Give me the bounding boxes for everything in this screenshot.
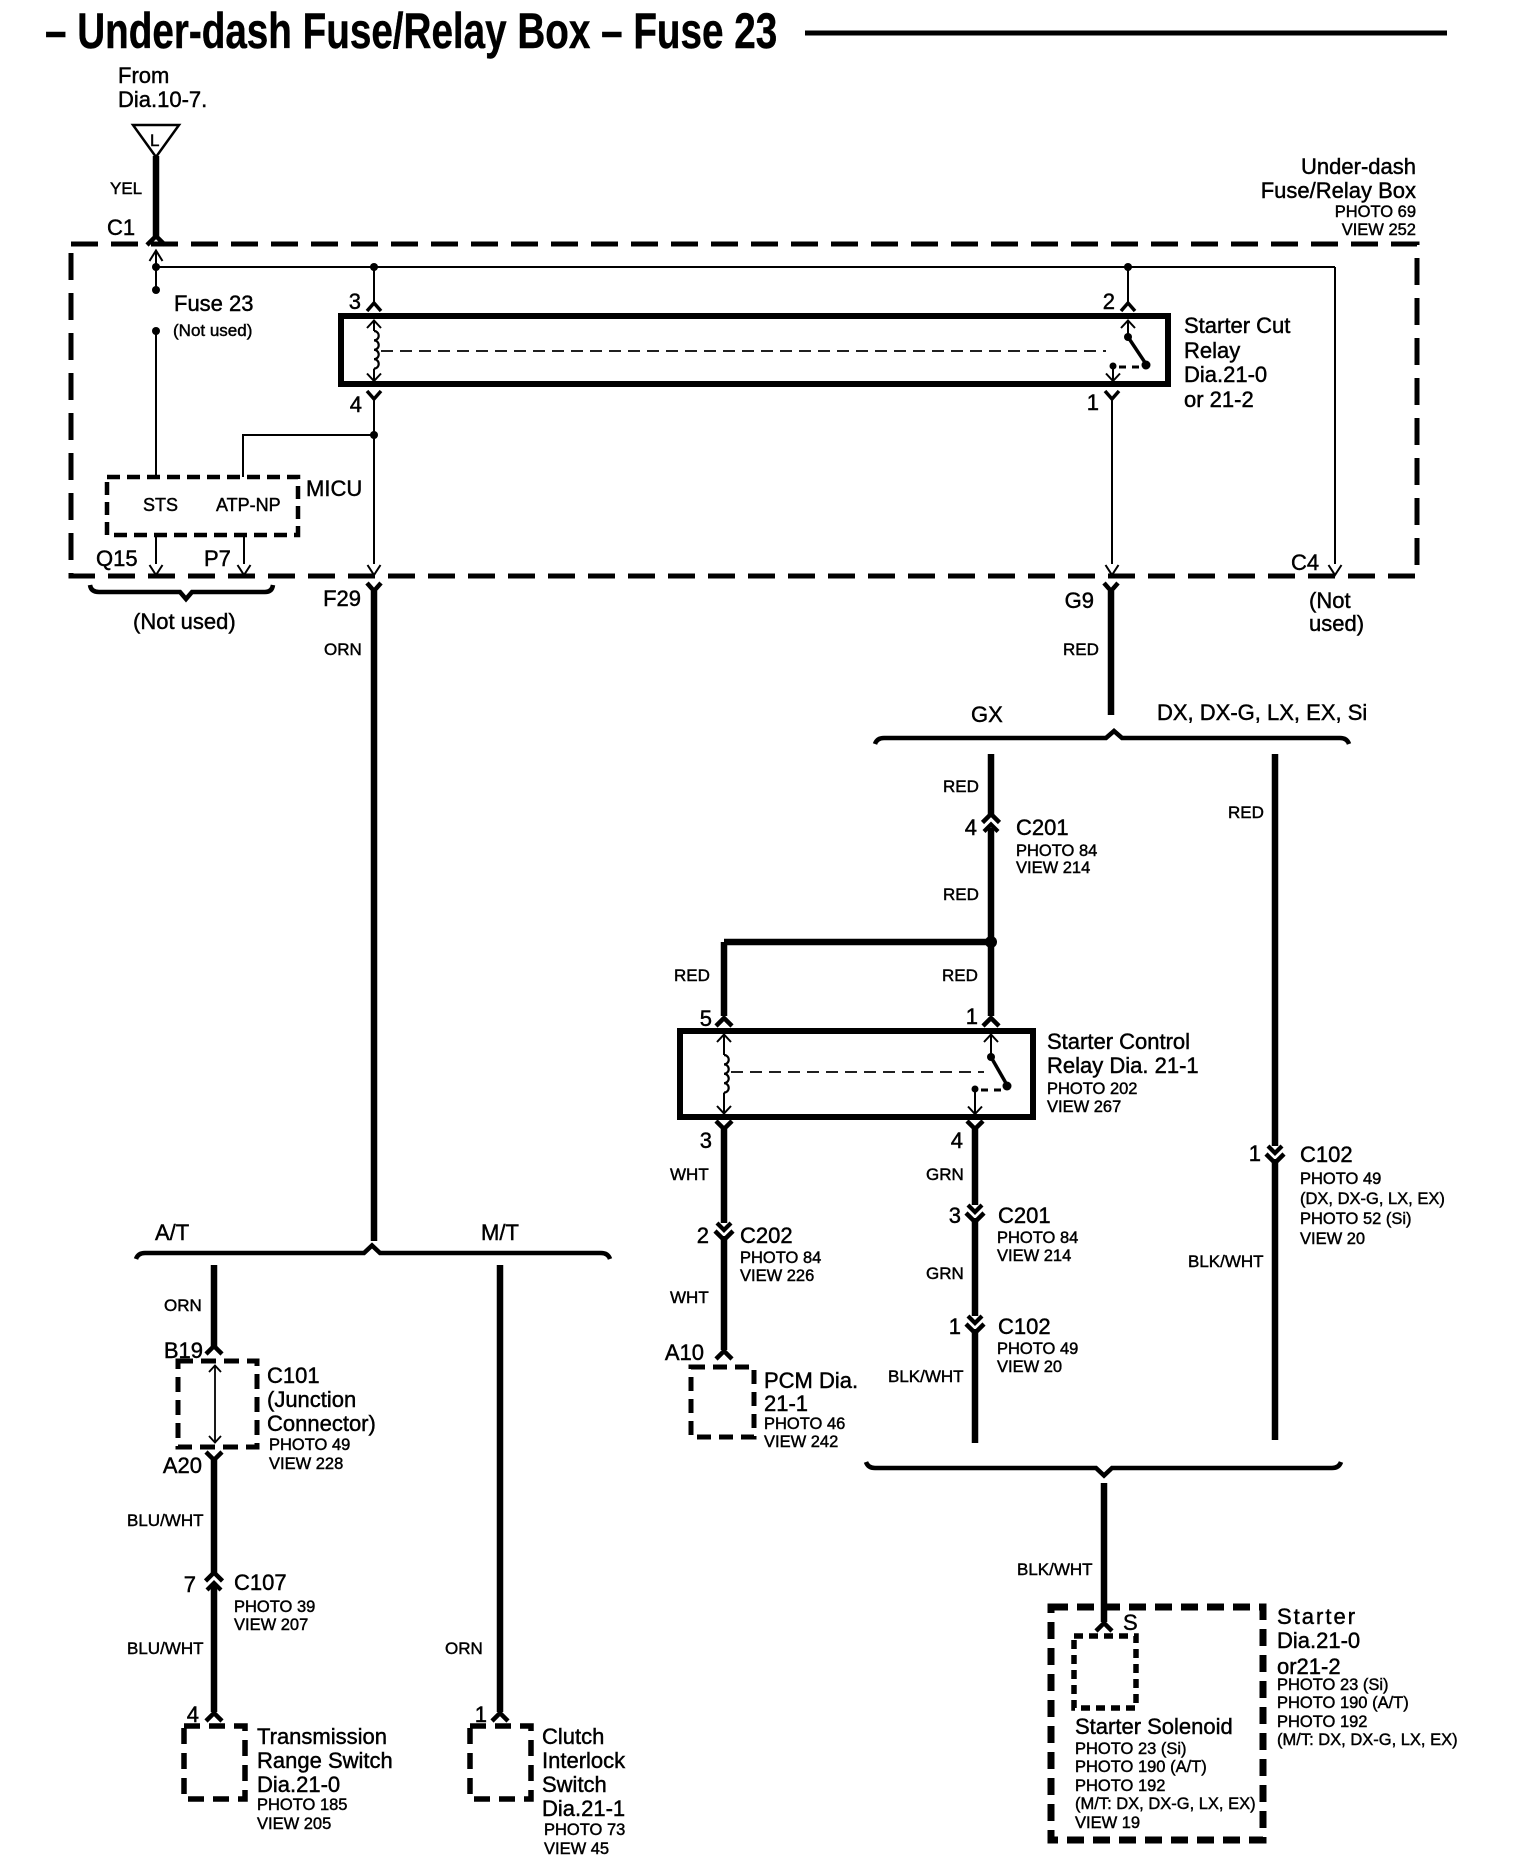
svg-text:RED: RED — [1063, 640, 1099, 659]
svg-text:PHOTO 69: PHOTO 69 — [1335, 203, 1416, 221]
connector pin 5 female flare — [716, 1018, 732, 1026]
svg-text:VIEW 20: VIEW 20 — [1300, 1230, 1365, 1248]
svg-text:VIEW 19: VIEW 19 — [1075, 1814, 1140, 1832]
svg-text:Dia.21-0: Dia.21-0 — [1277, 1628, 1360, 1653]
relay K1 Starter Cut Relay box — [341, 316, 1168, 384]
svg-text:Transmission: Transmission — [257, 1724, 387, 1749]
svg-text:PHOTO 23 (Si): PHOTO 23 (Si) — [1277, 1676, 1389, 1694]
label C201 PHOTO 84 VIEW 214 — [1016, 815, 1097, 877]
svg-text:VIEW 228: VIEW 228 — [269, 1455, 343, 1473]
svg-text:Relay: Relay — [1184, 338, 1240, 363]
svg-text:4: 4 — [350, 392, 362, 417]
svg-text:2: 2 — [1103, 289, 1115, 314]
wire RED to coil (horizontal) — [724, 939, 991, 946]
svg-text:VIEW 267: VIEW 267 — [1047, 1098, 1121, 1116]
relay K2 internal dashed link — [731, 1071, 984, 1073]
wire YEL (C1 feed) — [153, 156, 160, 236]
connector C107 pin 7 (up) — [206, 1573, 223, 1591]
svg-text:VIEW 214: VIEW 214 — [1016, 859, 1090, 877]
label C102 PHOTO 49 (DX, DX-G, LX, EX) PHOTO 52 (Si) VIEW 20 — [1300, 1142, 1445, 1248]
wire Q15 — [155, 535, 157, 564]
fuse 23 top lead — [155, 267, 157, 290]
svg-text:L: L — [150, 131, 159, 150]
wire BLK/WHT to starter — [1101, 1483, 1108, 1622]
svg-text:GRN: GRN — [926, 1264, 964, 1283]
label Starter Dia.21-0 or21-2 block — [1277, 1604, 1458, 1749]
wire ORN M/T branch — [497, 1265, 504, 1712]
connector B19 female flare — [206, 1346, 222, 1354]
clutch interlock switch box (dashed) — [470, 1726, 531, 1799]
svg-text:C201: C201 — [1016, 815, 1069, 840]
wire C1 entry arrow — [150, 251, 163, 268]
svg-text:PHOTO 185: PHOTO 185 — [257, 1796, 347, 1814]
node junction pin4/MICU branch — [370, 431, 378, 439]
svg-text:C202: C202 — [740, 1223, 793, 1248]
connector TRS pin 4 female flare — [206, 1713, 222, 1721]
brace merge to starter — [866, 1462, 1341, 1476]
svg-text:A20: A20 — [163, 1453, 202, 1478]
svg-text:used): used) — [1309, 611, 1364, 636]
svg-text:– Under-dash Fuse/Relay Box –: – Under-dash Fuse/Relay Box – Fuse 23 — [45, 4, 777, 59]
svg-text:VIEW 207: VIEW 207 — [234, 1616, 308, 1634]
connector pin 4 female flare — [967, 1121, 983, 1129]
svg-text:Relay Dia. 21-1: Relay Dia. 21-1 — [1047, 1053, 1199, 1078]
svg-text:ATP-NP: ATP-NP — [216, 495, 281, 515]
connector S female flare — [1096, 1623, 1112, 1631]
svg-text:PHOTO 46: PHOTO 46 — [764, 1415, 845, 1433]
relay K1 internal dashed link — [381, 350, 1106, 352]
wire RED GX branch upper — [988, 754, 995, 817]
svg-text:ORN: ORN — [164, 1296, 202, 1315]
wire C4 lead — [1334, 267, 1336, 564]
svg-text:P7: P7 — [204, 546, 231, 571]
svg-text:2: 2 — [697, 1223, 709, 1248]
label C202 PHOTO 84 VIEW 226 — [740, 1223, 821, 1285]
svg-text:G9: G9 — [1065, 588, 1094, 613]
svg-text:(Not used): (Not used) — [173, 321, 252, 340]
svg-text:ORN: ORN — [445, 1639, 483, 1658]
wire pin 4 to F29 — [373, 399, 375, 564]
svg-text:C102: C102 — [998, 1314, 1051, 1339]
wire RED coil drop — [721, 942, 728, 1016]
svg-text:STS: STS — [143, 495, 178, 515]
label Starter Cut Relay Dia.21-0 or 21-2 — [1184, 313, 1290, 412]
svg-text:PHOTO 202: PHOTO 202 — [1047, 1080, 1137, 1098]
svg-text:BLK/WHT: BLK/WHT — [1188, 1252, 1264, 1271]
wire RED GX branch lower — [988, 828, 995, 1016]
wire WHT to A10 — [721, 1236, 728, 1350]
relay K2 Starter Control Relay box — [680, 1031, 1033, 1117]
svg-text:RED: RED — [942, 966, 978, 985]
svg-text:MICU: MICU — [306, 476, 362, 501]
svg-text:ORN: ORN — [324, 640, 362, 659]
svg-text:Q15: Q15 — [96, 546, 138, 571]
arrow at G9 border — [1106, 565, 1119, 575]
svg-text:(Not: (Not — [1309, 588, 1351, 613]
svg-text:3: 3 — [949, 1203, 961, 1228]
pin 1 female flare — [1105, 391, 1119, 399]
label Starter Control Relay Dia. 21-1 — [1047, 1029, 1199, 1116]
brace A/T M/T split — [136, 1246, 610, 1260]
svg-text:F29: F29 — [323, 586, 361, 611]
wire ORN F29 down — [371, 591, 378, 1241]
svg-text:PHOTO 84: PHOTO 84 — [740, 1249, 821, 1267]
svg-text:21-1: 21-1 — [764, 1391, 808, 1416]
wire pin 1 to G9 — [1111, 399, 1113, 564]
svg-text:1: 1 — [1087, 390, 1099, 415]
wire branch to MICU ATP-NP — [243, 435, 374, 477]
connector C102 pin 1 (down) — [966, 1316, 984, 1333]
svg-text:BLU/WHT: BLU/WHT — [127, 1511, 204, 1530]
svg-text:PHOTO 39: PHOTO 39 — [234, 1598, 315, 1616]
node junction at C1/bus — [152, 263, 160, 271]
svg-text:7: 7 — [184, 1572, 196, 1597]
label C201 PHOTO 84 VIEW 214 — [997, 1203, 1078, 1265]
relay K2 coil — [717, 1035, 731, 1114]
connector triangle L (from Dia.10-7) — [133, 125, 179, 157]
connector C201 pin 4 (up) — [983, 814, 1000, 832]
svg-text:VIEW 214: VIEW 214 — [997, 1247, 1071, 1265]
svg-text:Interlock: Interlock — [542, 1748, 626, 1773]
svg-text:1: 1 — [966, 1004, 978, 1029]
pin 4 female flare — [367, 391, 381, 399]
node junction pin3 — [370, 263, 378, 271]
svg-text:RED: RED — [674, 966, 710, 985]
fuse 23 terminal top — [152, 286, 160, 294]
svg-text:WHT: WHT — [670, 1165, 709, 1184]
fuse 23 terminal bottom — [152, 327, 160, 335]
transmission range switch box (dashed) — [184, 1726, 245, 1799]
wire BLU/WHT lower — [211, 1586, 218, 1712]
svg-text:PHOTO 84: PHOTO 84 — [1016, 842, 1097, 860]
wire ORN A/T branch — [211, 1265, 218, 1347]
svg-text:PHOTO 192: PHOTO 192 — [1075, 1777, 1165, 1795]
label C101 (Junction Connector) PHOTO 49 VIEW 228 — [267, 1363, 376, 1473]
wire BLK/WHT right branch — [1272, 1159, 1279, 1440]
PCM box (dashed) — [691, 1367, 754, 1437]
connector clutch pin 1 female flare — [492, 1713, 508, 1721]
label C102 PHOTO 49 VIEW 20 — [997, 1314, 1078, 1376]
svg-text:C201: C201 — [998, 1203, 1051, 1228]
pin 3 female flare — [367, 303, 381, 311]
starter box (dashed) — [1051, 1607, 1263, 1840]
wire RED G9 down — [1108, 591, 1115, 715]
svg-text:Fuse 23: Fuse 23 — [174, 291, 254, 316]
svg-text:C101: C101 — [267, 1363, 320, 1388]
svg-text:(Junction: (Junction — [267, 1387, 356, 1412]
svg-text:VIEW 242: VIEW 242 — [764, 1433, 838, 1451]
svg-text:BLK/WHT: BLK/WHT — [1017, 1560, 1093, 1579]
svg-text:Dia.21-1: Dia.21-1 — [542, 1796, 625, 1821]
label Transmission Range Switch block — [257, 1724, 393, 1833]
svg-text:WHT: WHT — [670, 1288, 709, 1307]
node junction pin2 — [1124, 263, 1132, 271]
svg-text:5: 5 — [700, 1006, 712, 1031]
svg-text:(M/T: DX, DX-G, LX, EX): (M/T: DX, DX-G, LX, EX) — [1277, 1731, 1458, 1749]
svg-text:PHOTO 84: PHOTO 84 — [997, 1229, 1078, 1247]
svg-text:PHOTO 52 (Si): PHOTO 52 (Si) — [1300, 1210, 1412, 1228]
svg-text:VIEW 20: VIEW 20 — [997, 1358, 1062, 1376]
svg-text:C4: C4 — [1291, 550, 1319, 575]
svg-text:Starter Control: Starter Control — [1047, 1029, 1190, 1054]
connector C102 pin 1 right (down) — [1266, 1146, 1284, 1163]
svg-text:PHOTO 190 (A/T): PHOTO 190 (A/T) — [1075, 1758, 1207, 1776]
svg-text:C107: C107 — [234, 1570, 287, 1595]
svg-text:A10: A10 — [665, 1340, 704, 1365]
relay K2 switch — [968, 1035, 1012, 1115]
wire P7 — [243, 535, 245, 564]
wire internal bus (thin horizontal) — [156, 266, 1335, 268]
svg-text:Fuse/Relay Box: Fuse/Relay Box — [1261, 178, 1416, 203]
svg-text:Dia.10-7.: Dia.10-7. — [118, 87, 207, 112]
svg-text:or 21-2: or 21-2 — [1184, 387, 1254, 412]
wire RED right branch — [1272, 754, 1279, 1146]
wire BLU/WHT upper — [211, 1460, 218, 1573]
connector A20 female flare — [206, 1452, 222, 1460]
MICU box (dashed) — [107, 477, 298, 535]
relay K1 switch — [1106, 320, 1151, 381]
connector C202 pin 2 (down) — [715, 1223, 733, 1240]
svg-text:DX, DX-G, LX, EX, Si: DX, DX-G, LX, EX, Si — [1157, 700, 1367, 725]
svg-text:(M/T: DX, DX-G, LX, EX): (M/T: DX, DX-G, LX, EX) — [1075, 1795, 1256, 1813]
C101 internal arrow — [209, 1365, 221, 1443]
svg-text:Starter Cut: Starter Cut — [1184, 313, 1290, 338]
svg-text:S: S — [1123, 1610, 1138, 1635]
svg-text:VIEW 226: VIEW 226 — [740, 1267, 814, 1285]
svg-text:C102: C102 — [1300, 1142, 1353, 1167]
label Starter Solenoid block — [1075, 1714, 1256, 1832]
svg-text:Range Switch: Range Switch — [257, 1748, 393, 1773]
svg-text:PHOTO 49: PHOTO 49 — [997, 1340, 1078, 1358]
under-dash fuse/relay box (dashed) — [71, 244, 1417, 576]
brace not-used pins — [90, 585, 273, 599]
svg-text:Starter Solenoid: Starter Solenoid — [1075, 1714, 1233, 1739]
svg-text:1: 1 — [1249, 1141, 1261, 1166]
svg-text:Under-dash: Under-dash — [1301, 154, 1416, 179]
svg-text:RED: RED — [943, 777, 979, 796]
connector C201 pin 3 (down) — [966, 1205, 984, 1222]
connector G9 female flare — [1104, 583, 1118, 591]
svg-text:BLU/WHT: BLU/WHT — [127, 1639, 204, 1658]
connector F29 female flare — [367, 583, 381, 591]
svg-text:4: 4 — [951, 1128, 963, 1153]
svg-text:4: 4 — [965, 815, 977, 840]
svg-text:A/T: A/T — [155, 1220, 189, 1245]
svg-text:(DX, DX-G, LX, EX): (DX, DX-G, LX, EX) — [1300, 1190, 1445, 1208]
svg-text:Dia.21-0: Dia.21-0 — [257, 1772, 340, 1797]
svg-text:3: 3 — [700, 1128, 712, 1153]
svg-text:VIEW 252: VIEW 252 — [1342, 221, 1416, 239]
svg-text:PCM Dia.: PCM Dia. — [764, 1368, 858, 1393]
svg-text:1: 1 — [949, 1314, 961, 1339]
label Under-dash Fuse/Relay Box PHOTO 69 VIEW 252 — [1261, 154, 1416, 239]
svg-text:Dia.21-0: Dia.21-0 — [1184, 362, 1267, 387]
connector C1 female flare — [147, 236, 165, 245]
svg-text:PHOTO 192: PHOTO 192 — [1277, 1713, 1367, 1731]
connector pin 1 female flare — [983, 1018, 999, 1026]
arrow at F29 border — [368, 565, 381, 575]
brace GX / DX split — [875, 731, 1349, 744]
svg-text:M/T: M/T — [481, 1220, 519, 1245]
relay K1 coil — [367, 321, 381, 382]
wire fuse to MICU STS — [155, 331, 157, 477]
svg-text:RED: RED — [1228, 803, 1264, 822]
arrow at C4 border — [1329, 565, 1342, 575]
wire pin 2 lead — [1127, 267, 1129, 303]
svg-text:Starter: Starter — [1277, 1604, 1357, 1629]
wire pin 3 lead — [373, 267, 375, 303]
svg-text:YEL: YEL — [110, 179, 142, 198]
svg-text:PHOTO 190 (A/T): PHOTO 190 (A/T) — [1277, 1694, 1409, 1712]
label C107 PHOTO 39 VIEW 207 — [234, 1570, 315, 1634]
svg-text:C1: C1 — [107, 215, 135, 240]
label PCM Dia. 21-1 PHOTO 46 VIEW 242 — [764, 1368, 858, 1451]
svg-text:Connector): Connector) — [267, 1411, 376, 1436]
connector pin 3 female flare — [716, 1121, 732, 1129]
svg-text:VIEW 45: VIEW 45 — [544, 1840, 609, 1858]
svg-text:BLK/WHT: BLK/WHT — [888, 1367, 964, 1386]
svg-text:3: 3 — [349, 289, 361, 314]
node junction RED split — [985, 936, 997, 948]
wire BLK/WHT lower — [972, 1329, 979, 1443]
svg-text:Clutch: Clutch — [542, 1724, 604, 1749]
connector A10 female flare — [716, 1351, 732, 1359]
svg-text:PHOTO 23 (Si): PHOTO 23 (Si) — [1075, 1740, 1187, 1758]
svg-text:GX: GX — [971, 702, 1003, 727]
starter solenoid box (dashed) — [1074, 1636, 1136, 1708]
title rule — [805, 31, 1447, 36]
svg-text:From: From — [118, 63, 169, 88]
svg-text:RED: RED — [943, 885, 979, 904]
svg-text:PHOTO 49: PHOTO 49 — [1300, 1170, 1381, 1188]
svg-text:VIEW 205: VIEW 205 — [257, 1815, 331, 1833]
svg-text:(Not used): (Not used) — [133, 609, 236, 634]
wire GRN pin4 down — [972, 1129, 979, 1205]
svg-text:GRN: GRN — [926, 1165, 964, 1184]
svg-text:Switch: Switch — [542, 1772, 607, 1797]
wire WHT pin3 down — [721, 1129, 728, 1223]
svg-text:PHOTO 49: PHOTO 49 — [269, 1436, 350, 1454]
C101 junction connector box (dashed) — [178, 1361, 257, 1447]
svg-text:PHOTO 73: PHOTO 73 — [544, 1821, 625, 1839]
wire GRN lower — [972, 1218, 979, 1316]
pin 2 female flare — [1121, 303, 1135, 311]
label Clutch Interlock Switch block — [542, 1724, 626, 1858]
